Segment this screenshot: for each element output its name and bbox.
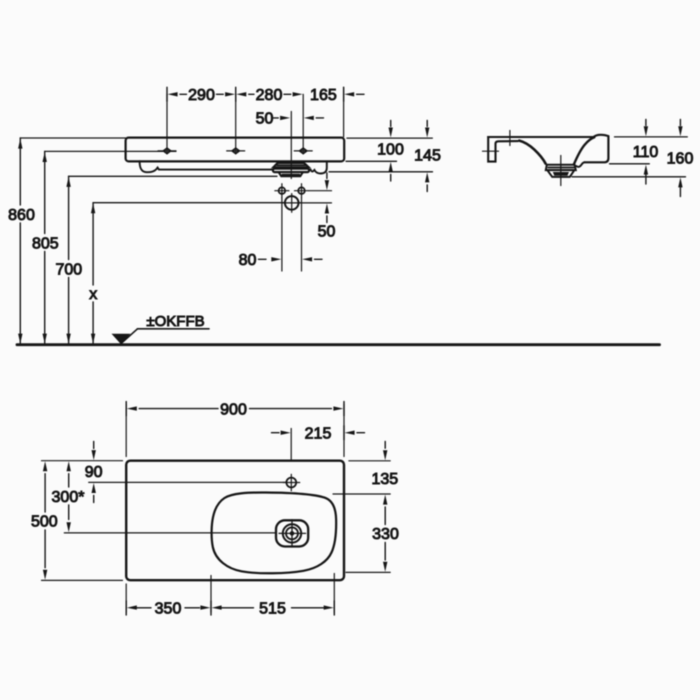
svg-text:80: 80 — [239, 252, 257, 269]
svg-text:160: 160 — [667, 150, 694, 167]
svg-text:50: 50 — [318, 224, 336, 241]
side view: bowl back wall — [574, 137, 595, 164]
front view: waste hole left — [275, 184, 289, 198]
plan view: tap hole line — [89, 481, 287, 483]
extension line hole1 — [166, 94, 168, 154]
plan extension bowl bottom right — [346, 571, 390, 573]
svg-text:±OKFFB: ±OKFFB — [146, 313, 204, 330]
extension line right edge up — [343, 87, 345, 137]
front view: waste hole right — [295, 184, 309, 198]
front view: right apron hook — [309, 161, 327, 173]
svg-text:100: 100 — [377, 141, 404, 158]
right extension top — [347, 137, 432, 139]
plan extension bowl right down — [333, 574, 335, 613]
plan view: drain center line — [64, 532, 279, 534]
floor line — [17, 343, 660, 346]
dim 805 vertical — [43, 151, 176, 343]
dim 160 — [678, 120, 682, 197]
side view: basin top rim — [488, 135, 608, 137]
side view: bracket centerline tick — [509, 131, 511, 146]
plan extension bowl left down — [210, 576, 212, 613]
extension waste right down — [301, 198, 303, 271]
plan extension bowl top right — [333, 493, 390, 495]
side view: underside wave — [575, 162, 585, 168]
plan extension tap up — [290, 429, 292, 478]
side extension mid — [610, 163, 650, 165]
side view: drain trapezoid — [547, 170, 574, 177]
dim 145 — [425, 121, 429, 192]
svg-text:500: 500 — [31, 514, 58, 531]
svg-text:110: 110 — [633, 144, 659, 161]
plan view: drain fitting — [276, 520, 308, 547]
front view: fixing hole 2 — [227, 148, 245, 153]
svg-text:860: 860 — [8, 207, 35, 224]
side view: bowl front wall — [519, 141, 545, 164]
dim 100 — [389, 121, 393, 182]
side view: sump centerline tick — [560, 156, 562, 186]
front view: fixing hole 1 — [158, 148, 176, 153]
dim 110 — [644, 120, 648, 185]
dim 350 — [126, 601, 211, 615]
front view: basin body — [126, 138, 345, 162]
plan extension left edge up — [125, 404, 127, 457]
svg-text:350: 350 — [155, 601, 182, 618]
svg-text:x: x — [89, 286, 97, 303]
level symbol OKFFB — [112, 329, 210, 344]
plan extension right edge up — [343, 404, 345, 457]
dim 330 — [383, 507, 387, 572]
plan view: bowl outline — [212, 492, 337, 573]
plan view: tap hole — [283, 474, 300, 491]
dim 80 — [259, 257, 323, 261]
plan extension left top — [42, 460, 123, 462]
dim 90 — [92, 442, 96, 503]
extension line hole3 — [302, 94, 304, 154]
dim 900 — [126, 402, 344, 416]
svg-text:330: 330 — [372, 526, 399, 543]
front view: drain flange top — [273, 163, 309, 167]
extension waste left down — [281, 198, 283, 271]
svg-text:215: 215 — [305, 425, 332, 442]
dim 50 top — [272, 116, 324, 120]
svg-text:700: 700 — [55, 262, 82, 279]
dim 515 — [212, 601, 335, 615]
front view: drain flange disc — [273, 169, 309, 172]
plan view: basin body — [126, 461, 344, 581]
side view: wall bracket — [488, 137, 520, 162]
front view: drain tailpiece — [279, 172, 303, 176]
dim x vertical — [91, 203, 285, 344]
dim 280 — [236, 92, 302, 96]
plan extension right 135 top — [349, 460, 390, 462]
dim 165 — [344, 87, 364, 101]
svg-text:900: 900 — [220, 401, 247, 418]
front view: fixing hole 3 — [294, 148, 312, 153]
side view: bracket bolt tick — [483, 150, 499, 152]
front view: left foot and apron line — [140, 161, 274, 172]
dim 290 — [167, 87, 236, 101]
dim 700 vertical — [66, 176, 277, 343]
plan extension left bottom — [42, 579, 123, 581]
dim 500 — [43, 461, 47, 580]
dim 215 — [272, 426, 365, 440]
side view: drain flange bar — [546, 165, 576, 170]
front view: drain outlet circle — [283, 194, 302, 213]
dim 135 — [383, 442, 387, 505]
side view: basin right edge — [585, 136, 609, 162]
svg-text:280: 280 — [256, 87, 283, 104]
dim 50 right side — [299, 173, 332, 223]
side extension bottom — [572, 176, 686, 178]
right extension bottom — [329, 171, 433, 173]
svg-text:300*: 300* — [52, 489, 85, 506]
right extension mid — [346, 160, 397, 162]
dim 860 vertical — [18, 138, 126, 344]
svg-text:165: 165 — [310, 87, 337, 104]
extension line drain center — [290, 112, 292, 179]
side extension top — [615, 136, 688, 138]
plan extension left edge down — [125, 584, 127, 613]
svg-text:290: 290 — [188, 87, 215, 104]
svg-text:145: 145 — [414, 147, 441, 164]
svg-text:135: 135 — [371, 471, 398, 488]
svg-text:515: 515 — [259, 601, 286, 618]
extension line hole2 — [235, 94, 237, 154]
svg-text:805: 805 — [32, 236, 59, 253]
svg-text:50: 50 — [256, 111, 274, 128]
fixing line inside body — [127, 150, 177, 152]
svg-text:90: 90 — [85, 464, 103, 481]
dim 300 — [67, 461, 71, 532]
